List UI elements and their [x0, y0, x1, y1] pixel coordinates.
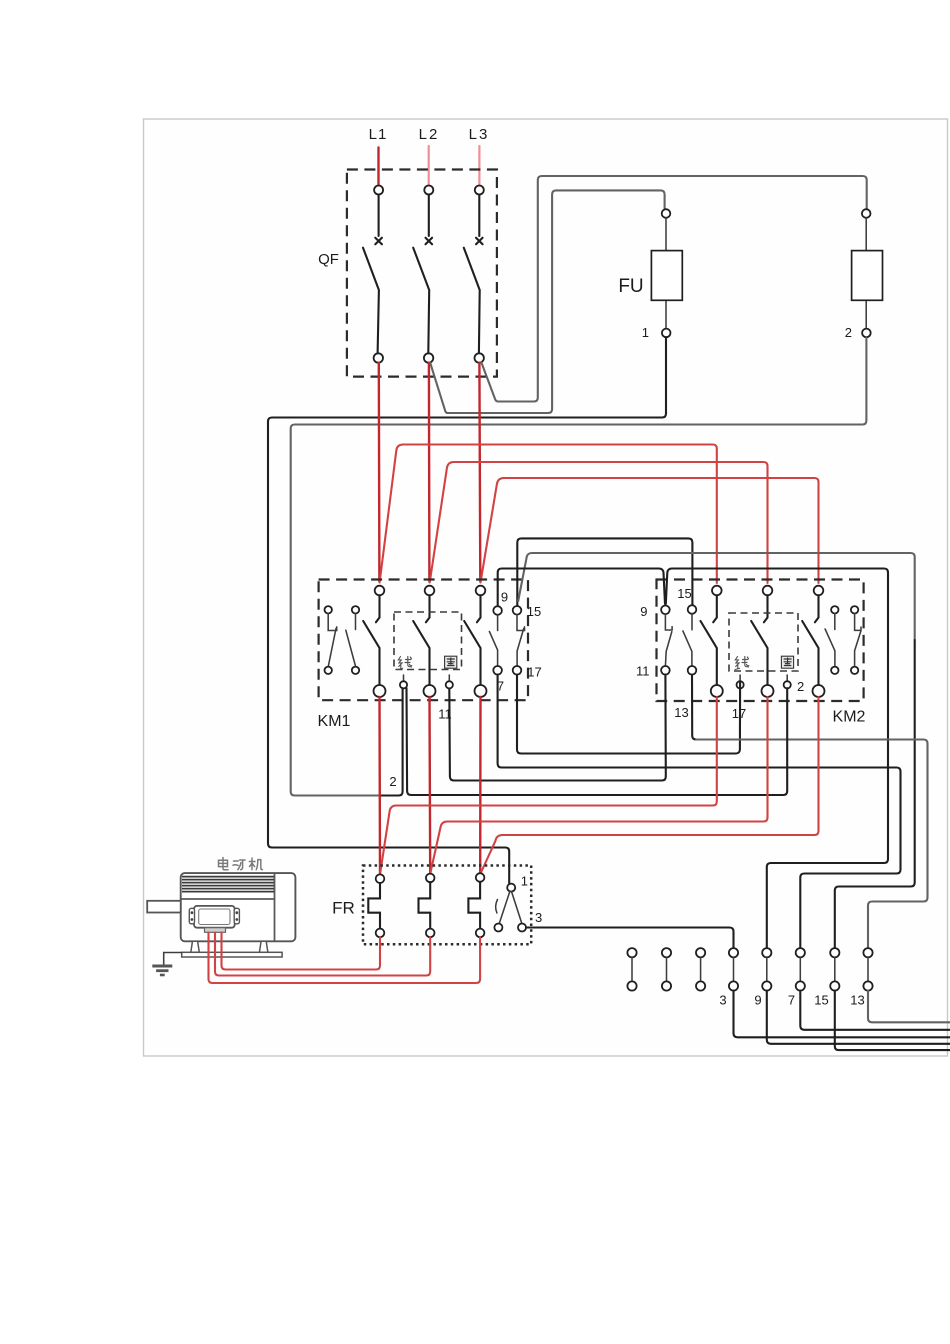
- svg-text:13: 13: [674, 705, 688, 720]
- svg-text:L1: L1: [369, 126, 388, 143]
- electric motor 电动机: [147, 858, 295, 958]
- svg-text:7: 7: [788, 993, 795, 1008]
- KM2 aux contact NO (right): [825, 606, 838, 674]
- terminal pair 2: [662, 948, 671, 991]
- wire net13 KM2 bottom to pair13: [692, 675, 696, 740]
- wire net9 KM2 top to pair9 riser: [666, 569, 888, 949]
- svg-text:3: 3: [535, 910, 542, 925]
- svg-text:9: 9: [501, 590, 508, 605]
- fuse FU2: [852, 209, 883, 337]
- svg-text:KM2: KM2: [833, 709, 866, 726]
- wire net11 KM1 coil to KM2 NC bottom: [449, 675, 666, 781]
- terminal pair net3: [729, 948, 738, 991]
- FR heater element 2: [419, 874, 435, 938]
- ground symbol: [152, 966, 172, 975]
- svg-text:13: 13: [850, 993, 864, 1008]
- wire red motor lead U to FR1: [222, 933, 381, 970]
- terminal pair net15: [830, 948, 839, 991]
- KM2 coil terminal 圈 pin: [784, 675, 791, 688]
- svg-text:1: 1: [521, 874, 528, 889]
- wire net17 KM1 bottom to KM2 coil: [517, 675, 740, 754]
- circuit breaker QF dashed box: [347, 170, 497, 377]
- svg-text:QF: QF: [318, 251, 339, 268]
- svg-text:15: 15: [814, 993, 828, 1008]
- wire net15 KM1 top to right riser (gray): [518, 553, 915, 640]
- svg-text:L2: L2: [419, 126, 440, 143]
- svg-text:15: 15: [527, 604, 541, 619]
- KM2 main pole 2: [751, 586, 773, 697]
- wire pair13 exit: [868, 991, 950, 1023]
- label KM2 coil 圈 (boxed): [781, 656, 793, 668]
- KM1 coil inner dashed box: [394, 612, 462, 670]
- KM2 coil inner dashed box: [729, 613, 798, 671]
- KM2 main pole 3: [802, 586, 824, 697]
- svg-text:1: 1: [642, 325, 649, 340]
- wire red crossover KM2 pole3 to KM1 pole3: [481, 478, 819, 583]
- KM1 main pole 2: [413, 586, 435, 697]
- wire net3 FR to pair3: [526, 928, 734, 949]
- wire red KM2 pole2 to FR2: [431, 697, 768, 873]
- wire pair7 exit: [800, 991, 950, 1030]
- KM2 coil terminal 线 pin: [737, 675, 744, 688]
- KM2 NO contact 15-13: [683, 605, 696, 674]
- wire red motor lead V to FR2: [215, 933, 430, 976]
- FR aux contact pins 1-3: [494, 884, 526, 932]
- wire net2 KM1 coil branch left: [380, 688, 403, 795]
- KM1 aux contact NC (left): [325, 606, 337, 674]
- svg-text:11: 11: [636, 664, 650, 679]
- svg-text:17: 17: [527, 665, 541, 680]
- svg-text:KM1: KM1: [318, 713, 351, 730]
- KM1 main pole 1: [363, 586, 385, 697]
- KM1 NC contact 15-17: [513, 606, 525, 675]
- contactor KM2 dashed box: [657, 580, 864, 702]
- terminal pair net9: [762, 948, 771, 991]
- svg-text:9: 9: [754, 993, 761, 1008]
- svg-text:11: 11: [438, 707, 452, 722]
- svg-text:L3: L3: [469, 126, 490, 143]
- wire QF pole3 to FU2 riser: [481, 176, 866, 402]
- QF pole 2: [413, 186, 433, 363]
- KM1 coil terminal 线 pin: [400, 675, 407, 688]
- wire red KM2 pole3 to FR3: [481, 697, 819, 873]
- QF pole 1: [363, 186, 383, 363]
- FR heater element 1: [368, 874, 384, 937]
- wire red KM1 pole3 to FR3: [479, 697, 482, 874]
- wire net7 KM1 bottom to pair7: [498, 675, 901, 948]
- page frame: [144, 119, 948, 1056]
- terminal pair net7: [796, 948, 805, 991]
- KM2 NC contact 9-11: [661, 606, 672, 675]
- svg-text:2: 2: [797, 679, 804, 694]
- KM1 aux contact NO (second): [346, 606, 359, 674]
- KM2 main pole 1: [701, 586, 723, 697]
- wire red crossover KM2 pole2 to KM1 pole2: [430, 462, 768, 583]
- wire L3 drop: [478, 146, 480, 185]
- svg-text:FU: FU: [618, 276, 643, 297]
- ground wire: [164, 953, 182, 965]
- terminal pair net13: [863, 948, 872, 991]
- KM1 main pole 3: [464, 586, 486, 697]
- wire red phase1 QF1 to KM1 pole1: [378, 363, 381, 582]
- wire red phase2 QF2 to KM1 pole2: [428, 363, 431, 582]
- label KM1 coil 圈 (boxed): [445, 656, 457, 668]
- wire red KM2 pole1 to FR1: [380, 697, 717, 873]
- wire FU1 bottom to FR aux (net 1): [268, 337, 666, 883]
- wire pair9 exit: [767, 991, 950, 1044]
- contactor KM1 dashed box: [319, 580, 528, 701]
- label KM1 coil 线: [398, 657, 412, 670]
- wire pair3 exit: [734, 991, 950, 1038]
- svg-text:2: 2: [845, 325, 852, 340]
- label KM2 coil 线: [735, 657, 749, 670]
- wire net9 KM1 top to KM2 top: [498, 569, 665, 606]
- thermal relay FR dotted box: [363, 866, 531, 945]
- svg-text:2: 2: [389, 774, 396, 789]
- KM2 aux contact NC (rightmost): [851, 606, 861, 674]
- wire QF pole2 to FU1 riser: [430, 190, 664, 413]
- terminal pair 1: [627, 948, 636, 991]
- wire L2 drop: [428, 146, 430, 185]
- wire net15 KM1 to KM2 top bus: [517, 538, 692, 605]
- KM1 NO contact 9-7: [489, 606, 502, 674]
- fuse FU1: [651, 209, 682, 337]
- svg-text:15: 15: [677, 586, 691, 601]
- svg-text:9: 9: [640, 604, 647, 619]
- wire red KM1 pole2 to FR2: [428, 697, 431, 874]
- wire red KM1 pole1 to FR1: [378, 697, 381, 874]
- QF pole 3: [464, 186, 484, 363]
- svg-text:FR: FR: [332, 899, 355, 918]
- svg-text:3: 3: [719, 993, 726, 1008]
- KM1 coil terminal 圈 pin: [446, 675, 453, 688]
- wire L1 drop: [377, 148, 379, 186]
- wire red motor lead W to FR3: [209, 933, 481, 984]
- FR heater element 3: [468, 873, 484, 937]
- wire FU2 bottom to net 2 rail: [291, 337, 867, 795]
- wire red crossover KM2 pole1 to KM1 pole1: [380, 445, 717, 584]
- wire pair15 exit: [835, 991, 950, 1051]
- terminal pair 3 unlabeled: [696, 948, 705, 991]
- wire net2 rail to KM2 coil: [407, 688, 788, 795]
- wire red phase3 QF3 to KM1 pole3: [478, 363, 481, 582]
